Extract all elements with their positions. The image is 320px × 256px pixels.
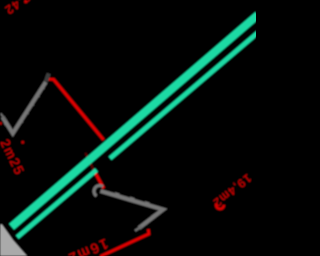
red dimension line 1 (from V peak to green road) [47, 79, 104, 140]
red dimension segment 2 (between thin green line and road start) [86, 153, 96, 174]
road 2 start hook (arrow chevron) [94, 185, 103, 196]
red dimension line 3 (from road 2 end toward bottom-left) [100, 229, 149, 256]
thin green line segment A (carriageway B lower part) [17, 170, 96, 237]
gray stub (road continuation, bottom-left corner) [0, 225, 27, 256]
wide green line (main road carriageway A) [12, 15, 259, 227]
road 2 end tick [135, 227, 142, 231]
red dot at road 1 left end [0, 122, 2, 125]
red dot below text 2 [21, 141, 24, 144]
red horseshoe mark below label [216, 204, 224, 209]
gray road 2: right-bottom polyline [101, 191, 164, 228]
road 1 dark cap (dark segment above peak) [46, 74, 49, 82]
red dot near text 1 [24, 0, 27, 3]
road 2 teeth [115, 192, 156, 225]
gray road 1: V / checkmark polyline [3, 82, 46, 133]
road 1 teeth (direction ticks on left edge) [3, 85, 45, 127]
thin green line segment B (carriageway B upper part) [110, 33, 258, 159]
road 1 end tick (top-left end) [1, 114, 7, 121]
